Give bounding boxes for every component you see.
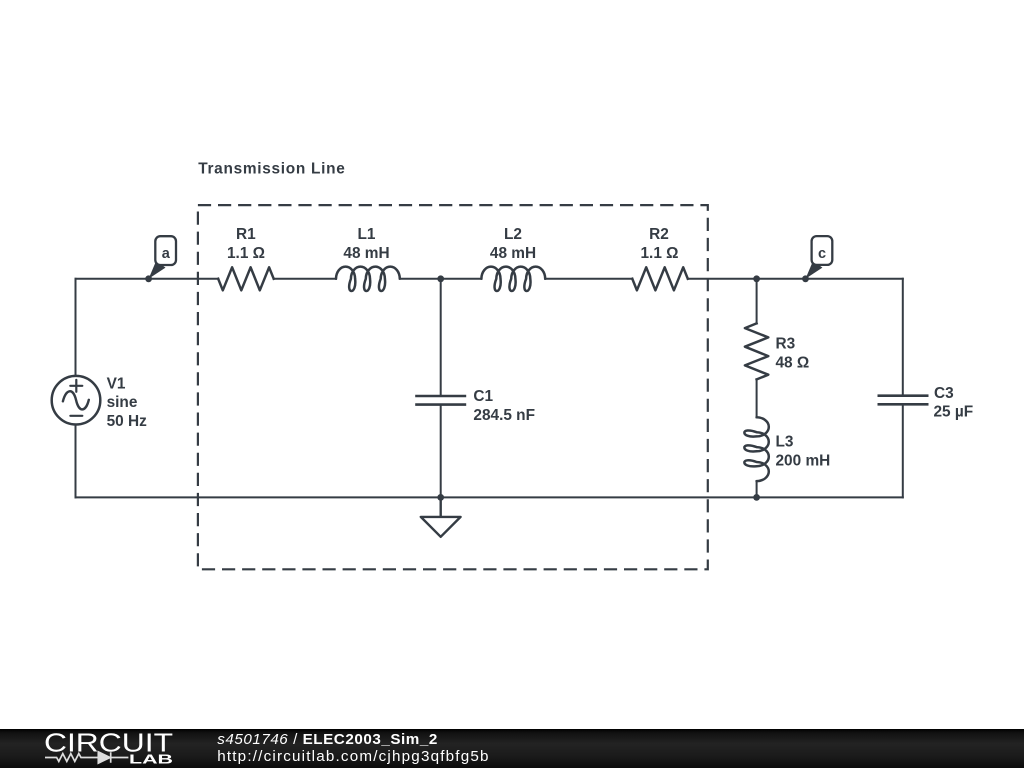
wire top-left segment (node a to R1) (76, 278, 219, 280)
junction C1 top dot (437, 275, 444, 282)
wire R2 to top-right corner (688, 278, 903, 280)
footer url line (217, 748, 489, 765)
resistor R1 (218, 267, 274, 290)
junction R3 top dot (753, 275, 760, 282)
svg-text:V1: V1 (107, 376, 126, 393)
C3 value label (934, 404, 974, 421)
junction R3 bottom dot (753, 494, 760, 501)
wire R3 to L3 (756, 379, 758, 417)
transmission line dashed box (198, 205, 708, 569)
inductor L2 (481, 267, 545, 291)
svg-text:C1: C1 (473, 388, 493, 405)
svg-text:48 mH: 48 mH (343, 245, 389, 262)
svg-text:sine: sine (107, 394, 138, 411)
wire L1 to L2 (through C1 junction) (400, 278, 482, 280)
L1 value label (343, 245, 389, 262)
svg-text:R1: R1 (236, 226, 256, 243)
svg-text:a: a (162, 246, 171, 262)
wire left vertical (top wire to V1) (75, 279, 77, 376)
transmission line title (198, 161, 345, 178)
wire L2 to R2 (545, 278, 632, 280)
node a label (162, 246, 171, 262)
V1 plus sign (70, 380, 82, 392)
wire right vertical (top to C3) (902, 279, 904, 395)
L3 name label (776, 433, 794, 450)
svg-text:L2: L2 (504, 226, 522, 243)
voltage source V1 circle (52, 376, 101, 425)
inductor L3 (744, 417, 768, 481)
svg-text:1.1 Ω: 1.1 Ω (227, 245, 265, 262)
resistor R3 (745, 323, 768, 379)
svg-text:s4501746 / ELEC2003_Sim_2: s4501746 / ELEC2003_Sim_2 (217, 731, 438, 748)
svg-text:c: c (818, 246, 826, 262)
V1 minus sign (70, 415, 82, 417)
R2 name label (649, 226, 669, 243)
resistor R2 (632, 267, 688, 290)
logo resistor-diode glyph (45, 752, 128, 763)
wire R1 to L1 (274, 278, 336, 280)
svg-text:284.5 nF: 284.5 nF (473, 407, 535, 424)
C1 value label (473, 407, 535, 424)
wire C1 branch bottom (440, 405, 442, 497)
C1 name label (473, 388, 493, 405)
V1 sine waveform (63, 391, 89, 409)
L2 name label (504, 226, 522, 243)
V1 name label (107, 376, 126, 393)
junction node a dot (145, 275, 152, 282)
wire L3 to bottom wire (756, 481, 758, 497)
node a flag box (155, 236, 176, 265)
svg-text:L1: L1 (358, 226, 376, 243)
svg-text:http://circuitlab.com/cjhpg3qf: http://circuitlab.com/cjhpg3qfbfg5b (217, 748, 489, 765)
L3 value label (776, 452, 831, 469)
CircuitLab logo wordmark CIRCUIT (44, 728, 173, 758)
junction ground dot (437, 494, 444, 501)
L2 value label (490, 245, 536, 262)
wire V1 to bottom-left corner (75, 425, 77, 498)
C3 name label (934, 385, 954, 402)
node c flag pointer (806, 261, 823, 279)
capacitor C3 plates (878, 396, 929, 405)
junction node c dot (802, 275, 809, 282)
R3 name label (776, 336, 796, 353)
svg-text:L3: L3 (776, 433, 794, 450)
CircuitLab logo wordmark LAB (129, 752, 173, 766)
footer bar (0, 729, 1024, 768)
ground symbol (421, 497, 461, 536)
V1 value label (107, 413, 148, 430)
svg-text:200 mH: 200 mH (776, 452, 831, 469)
V1 type label (107, 394, 138, 411)
svg-text:25 µF: 25 µF (934, 404, 974, 421)
node c flag box (812, 236, 833, 265)
node c label (818, 246, 826, 262)
R1 name label (236, 226, 256, 243)
wire R3 branch top (756, 279, 758, 324)
wire bottom horizontal (76, 496, 903, 498)
inductor L1 (336, 267, 400, 291)
footer title line (217, 731, 438, 748)
node a flag pointer (149, 261, 166, 279)
R2 value label (640, 245, 678, 262)
R1 value label (227, 245, 265, 262)
R3 value label (776, 354, 810, 371)
svg-text:48 Ω: 48 Ω (776, 354, 810, 371)
svg-text:LAB: LAB (129, 752, 173, 766)
capacitor C1 plates (415, 396, 466, 405)
svg-text:R3: R3 (776, 336, 796, 353)
svg-text:50 Hz: 50 Hz (107, 413, 148, 430)
wire C3 to bottom wire (902, 405, 904, 497)
wire C1 branch top (440, 279, 442, 395)
L1 name label (358, 226, 376, 243)
svg-text:48 mH: 48 mH (490, 245, 536, 262)
svg-text:1.1 Ω: 1.1 Ω (640, 245, 678, 262)
svg-text:Transmission Line: Transmission Line (198, 161, 345, 178)
svg-text:C3: C3 (934, 385, 954, 402)
svg-text:R2: R2 (649, 226, 669, 243)
